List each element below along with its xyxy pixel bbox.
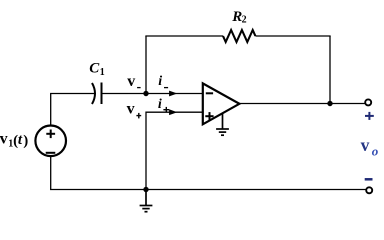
op-amp inverting pin marker: [206, 92, 213, 94]
svg-text:v: v: [361, 135, 370, 155]
wire: ground rail up to op-amp noninverting input: [146, 112, 204, 189]
op-amp U1: [203, 83, 240, 124]
current arrow i+: [169, 109, 177, 115]
svg-text:i: i: [158, 97, 162, 112]
wire: feedback down to output node: [329, 36, 331, 104]
voltage source plus mark: [46, 130, 55, 139]
wire: node v- up to feedback rail: [145, 36, 147, 94]
terminal: vo -: [366, 187, 372, 193]
wire: bottom ground rail: [50, 189, 366, 191]
svg-text:): ): [23, 133, 28, 149]
wire: feedback rail right of R2: [255, 35, 330, 37]
junction: ground node: [143, 187, 148, 192]
ground (main): [140, 190, 153, 212]
wire: feedback rail left of R2: [145, 35, 223, 37]
current arrow i-: [169, 91, 177, 97]
svg-text:v: v: [127, 73, 135, 90]
svg-text:2: 2: [242, 15, 247, 26]
svg-text:v: v: [0, 131, 8, 148]
svg-text:R: R: [231, 9, 242, 25]
junction: node v-: [143, 91, 148, 96]
ground (op-amp reference): [216, 114, 229, 136]
svg-text:o: o: [372, 143, 379, 158]
svg-text:1: 1: [100, 67, 105, 78]
label + (vo polarity): [365, 112, 374, 120]
capacitor C1: [92, 83, 95, 104]
label - (vo polarity): [365, 178, 373, 181]
svg-text:v: v: [127, 101, 135, 118]
junction: output node: [327, 101, 332, 106]
voltage source minus mark: [46, 152, 56, 154]
wire: source bottom to ground rail: [50, 156, 52, 190]
svg-text:i: i: [158, 74, 162, 89]
terminal: vo +: [365, 99, 371, 105]
wire: source top to capacitor C1: [51, 94, 95, 126]
wire: capacitor to op-amp inverting input: [102, 93, 204, 95]
op-amp noninverting pin marker: [205, 112, 213, 120]
voltage source V1: [35, 126, 66, 157]
svg-text:C: C: [89, 61, 100, 77]
svg-text:t: t: [18, 132, 23, 148]
resistor R2: [223, 30, 255, 42]
wire: op-amp output to terminal vo+: [239, 103, 365, 105]
